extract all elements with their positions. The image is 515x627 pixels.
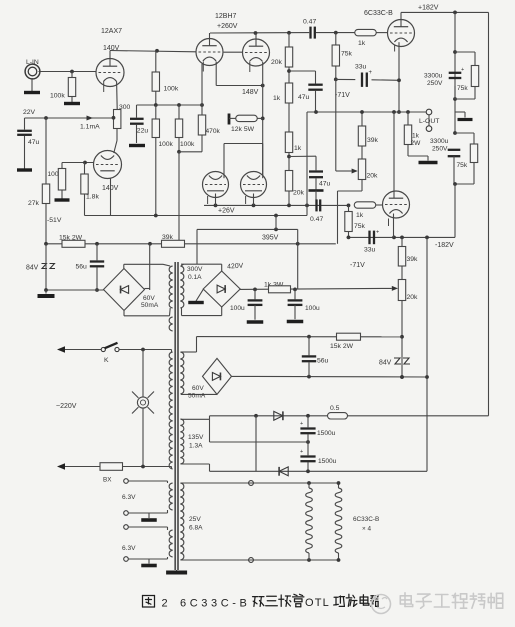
wire top rail y=50 to 12BH7 grid [110, 51, 196, 52]
resistor 1k 2W [407, 112, 409, 125]
bridge rectifier B1 60V [104, 269, 145, 311]
svg-text:6.3V: 6.3V [122, 494, 136, 501]
wire lower plates link y=143.5 [224, 143, 263, 145]
svg-text:3300u: 3300u [424, 73, 443, 80]
right rail down [488, 12, 490, 415]
winding 60V-1 [169, 266, 172, 308]
svg-text:20k: 20k [407, 294, 419, 301]
svg-text:300V: 300V [187, 266, 203, 273]
triode 6C33C-B upper [388, 20, 415, 47]
wire cathode line +26V [204, 204, 349, 206]
node -71V upper [335, 66, 337, 79]
jack L-OUT [426, 109, 432, 115]
svg-text:47u: 47u [319, 181, 331, 188]
left rail 22V to -51V [45, 118, 47, 244]
resistor 20k V2 plate load [288, 33, 290, 47]
capacitor 1500u lower [307, 442, 309, 455]
wire lower cathode stem [393, 214, 395, 238]
wire wiper arm [336, 170, 352, 172]
wire output to lower plate [393, 112, 395, 198]
transformer core [174, 262, 176, 570]
bridge rectifier B2 420V [221, 264, 223, 271]
wire left rail to ground node y=290 [45, 244, 47, 290]
triode V1a (12AX7 a) [96, 59, 124, 87]
svg-text:22u: 22u [137, 128, 149, 135]
wire input to V1a grid [39, 71, 97, 73]
svg-text:0.1A: 0.1A [188, 274, 202, 281]
svg-text:100k: 100k [180, 141, 195, 148]
wire switch to primary [119, 349, 171, 351]
arrow wiper into 20k lower [392, 286, 398, 291]
svg-text:12AX7: 12AX7 [101, 28, 122, 35]
heater load zigzag 1 [308, 483, 310, 488]
wire 395V line down to 1k3W line [297, 229, 299, 289]
wire bias line y=244 [46, 243, 336, 245]
svg-text:22V: 22V [23, 109, 36, 116]
svg-text:15k 2W: 15k 2W [330, 343, 354, 350]
svg-text:-51V: -51V [47, 217, 62, 224]
lamp G [142, 350, 144, 397]
triode 6C33C-B lower [383, 191, 410, 218]
svg-text:~220V: ~220V [56, 403, 77, 410]
ground under 100u left [247, 320, 264, 323]
svg-text:100k: 100k [50, 93, 65, 100]
svg-text:-71V: -71V [350, 262, 365, 269]
wire V2a lower plate stem [223, 144, 225, 179]
wire output line y=112 [307, 111, 426, 113]
wire B1 right corner up to bias line [149, 244, 151, 290]
winding 25V [180, 483, 183, 560]
resistor 100k divider b [178, 105, 180, 119]
winding 6.3V b [169, 530, 172, 557]
svg-text:75k: 75k [354, 223, 366, 230]
wire V2b plate stem [255, 33, 257, 39]
node 22V/left rail [44, 116, 48, 120]
wire cap to 6C33C grid node [316, 32, 355, 34]
wire 6.3V a top [128, 480, 167, 482]
resistor 100k plate V1a [155, 51, 157, 72]
watermark text dianzi gongcheng zhuanji [400, 593, 412, 607]
wire V2a plate stem [209, 33, 211, 39]
svg-text:K: K [104, 357, 109, 364]
capacitor 56u lower [308, 337, 310, 356]
svg-text:6.8A: 6.8A [189, 525, 203, 532]
svg-text:12BH7: 12BH7 [215, 13, 237, 20]
wire V2a lower cathode stem [215, 194, 217, 206]
resistor 12k 5W [229, 117, 236, 119]
wire plate stem upper tube [400, 12, 402, 19]
svg-text:60V: 60V [143, 295, 155, 302]
stub V2b [249, 62, 251, 72]
ground 6.3V a [148, 513, 150, 518]
svg-text:100u: 100u [305, 305, 320, 312]
ground under 100u right [287, 320, 304, 323]
wire to 47u upper [289, 70, 316, 72]
svg-text:47u: 47u [298, 94, 310, 101]
capacitor 33u lower [368, 231, 370, 245]
svg-text:1500u: 1500u [317, 430, 336, 437]
svg-text:3300u: 3300u [430, 138, 449, 145]
wire 25V bottom [181, 559, 339, 561]
resistor 1k grid lower [347, 204, 351, 208]
svg-text:6C33C-B: 6C33C-B [180, 598, 250, 610]
resistor 39k bias lower [401, 237, 403, 246]
wire V1b plate stem [110, 179, 112, 216]
winding mains primary [169, 352, 172, 469]
jack 6.3V b bottom [124, 557, 129, 562]
fuse BX [100, 463, 123, 471]
switch K [101, 347, 105, 351]
resistor 1k V2 b [285, 132, 292, 153]
resistor 100k divider a [155, 105, 157, 119]
wire 20k bottom jog [361, 180, 363, 192]
resistor 75k from grid node [335, 33, 337, 45]
wire 300V bottom to bridge B2 [181, 308, 183, 316]
wire 300 bottom to V1b cathode [116, 129, 118, 141]
wire V1a plate to top rail [109, 51, 111, 59]
svg-text:100u: 100u [230, 305, 245, 312]
wire B+ line y=416 [210, 415, 328, 417]
svg-text:25V: 25V [189, 516, 201, 523]
svg-text:33u: 33u [355, 64, 367, 71]
svg-text:OTL: OTL [305, 597, 330, 609]
svg-text:0.47: 0.47 [310, 216, 323, 223]
wire 148V cathode link [216, 85, 263, 87]
triode V2b lower (12BH7) [241, 172, 267, 198]
wire 395V feed line y=229.4 [197, 228, 298, 230]
svg-text:6.3V: 6.3V [122, 545, 136, 552]
svg-text:2W: 2W [411, 140, 422, 147]
wire B1 bottom to transformer [123, 311, 125, 316]
wire 33u line to 6C33C cathode [336, 78, 356, 80]
arrow wiper into 20k [352, 169, 358, 174]
ground under 22u [129, 144, 145, 147]
wire node y=290 to bridge B1 [46, 289, 104, 291]
wire to switch [65, 349, 101, 351]
svg-text:× 4: × 4 [362, 526, 372, 533]
watermark logo circle [372, 595, 391, 614]
resistor 75k grid leak lower [348, 205, 350, 211]
caption: tu 2 [143, 596, 155, 608]
svg-text:+: + [369, 70, 373, 76]
capacitor 47u input [24, 118, 26, 130]
svg-text:75k: 75k [341, 51, 353, 58]
capacitor 3300u lower [453, 131, 457, 135]
ground under 1k 2W [407, 145, 409, 157]
wire fuse to primary bottom [123, 466, 172, 468]
svg-text:1k: 1k [358, 40, 366, 47]
wire 20k bottom to lines below [401, 301, 403, 378]
svg-text:50mA: 50mA [188, 393, 206, 400]
svg-text:250V: 250V [432, 146, 448, 153]
svg-text:20k: 20k [293, 190, 305, 197]
ground stub right of L-OUT [455, 111, 465, 113]
winding 300V [180, 266, 183, 308]
ground under 100 [55, 198, 70, 201]
wire V1b plate line y=215.5 [85, 215, 308, 217]
svg-text:0.5: 0.5 [330, 405, 340, 412]
wire -71V rail down to wiper [335, 79, 337, 171]
resistor 1k grid upper [355, 29, 377, 35]
ground under 47u [17, 168, 32, 171]
capacitor 22u cathode bypass [136, 105, 138, 118]
svg-text:1k: 1k [412, 133, 420, 140]
winding stub below 60V-1 [169, 317, 172, 331]
ground at core bottom [176, 570, 178, 571]
wire B2 right to 1k3W line [239, 288, 242, 290]
svg-text:+: + [300, 421, 303, 427]
node input/100k junction [70, 70, 74, 74]
capacitor 47u lower [315, 156, 317, 170]
svg-text:0.47: 0.47 [303, 19, 316, 26]
wire 1k to 1k [288, 103, 290, 132]
jack 6.3V b top [124, 525, 129, 530]
ground at -51V rail bottom [45, 290, 47, 294]
resistor 470k [201, 105, 203, 115]
resistor 1.8k cathode [84, 163, 86, 175]
wire cathode upper tube to out [398, 42, 400, 112]
wire 395V to plate line [275, 216, 277, 230]
svg-text:39k: 39k [407, 256, 419, 263]
resistor 100 grid stopper [61, 163, 63, 169]
svg-text:BX: BX [103, 477, 112, 484]
svg-text:12k 5W: 12k 5W [231, 126, 255, 133]
capacitor 1500u upper [307, 416, 309, 428]
svg-text:27k: 27k [28, 200, 40, 207]
capacitor 33u upper [361, 73, 363, 87]
svg-text:+: + [300, 449, 303, 455]
wire 15k2W-2 line y=336.6 [197, 336, 403, 338]
svg-text:100k: 100k [164, 86, 179, 93]
ground at B2 left [196, 289, 203, 301]
svg-text:-71V: -71V [335, 92, 350, 99]
wire B3 right to 84V line [232, 375, 428, 378]
wire right rail to -182V [454, 184, 456, 237]
svg-text:33u: 33u [364, 247, 376, 254]
stub V2b lower [245, 196, 247, 204]
jack 6.3V a bottom [124, 511, 129, 516]
svg-text:100k: 100k [159, 141, 174, 148]
resistor 75k bleeder upper [471, 66, 478, 87]
svg-text:84V: 84V [26, 265, 39, 272]
svg-text:470k: 470k [206, 128, 221, 135]
bridge rectifier B3 60V [203, 358, 232, 394]
capacitor 56u left [96, 244, 98, 260]
wire output drop to +26V line [306, 112, 308, 216]
wire 60V-2 bottom to B3 [181, 393, 217, 395]
stub V2a [202, 62, 204, 72]
svg-text:39k: 39k [367, 137, 379, 144]
stub V2a lower [207, 196, 209, 204]
wire 100k-a bottom to V1b plate line [155, 138, 157, 216]
capacitor 47u upper [315, 71, 317, 84]
wire V1b grid line [62, 162, 94, 164]
svg-text:420V: 420V [227, 263, 244, 271]
wire 60V-1 top to bridge B1 top [163, 264, 170, 266]
svg-text:+: + [461, 67, 464, 73]
svg-text:148V: 148V [242, 89, 259, 96]
wire V2b lower cathode stem [253, 194, 255, 206]
wire 135V bottom lead [181, 463, 210, 465]
svg-text:+26V: +26V [218, 208, 235, 215]
svg-text:6C33C-B: 6C33C-B [364, 10, 393, 17]
diode D1 [274, 411, 283, 420]
wire 135V top lead [181, 418, 210, 420]
svg-text:6C33C-B: 6C33C-B [353, 516, 379, 523]
wire 1k 3W bias feed line [240, 288, 392, 289]
svg-text:1k: 1k [356, 212, 364, 219]
svg-text:+260V: +260V [217, 23, 238, 30]
svg-text:395V: 395V [262, 235, 279, 242]
svg-text:75k: 75k [457, 85, 468, 92]
resistor 27k [42, 184, 49, 204]
arrow 1.1mA current [87, 116, 94, 121]
svg-text:1.1mA: 1.1mA [80, 124, 100, 131]
svg-text:1k: 1k [294, 145, 302, 152]
wire +182V rail [401, 11, 489, 13]
caption: gong fang dian lu [334, 596, 345, 606]
triode V2a upper (12BH7) [196, 39, 223, 66]
capacitor 100u right [294, 289, 296, 299]
wire 25V top [181, 482, 339, 484]
svg-text:20k: 20k [271, 59, 283, 66]
diode D2 [279, 467, 288, 476]
svg-text:2: 2 [162, 598, 168, 610]
wire to fuse [65, 466, 100, 468]
svg-text:75k: 75k [457, 162, 468, 169]
wire 395V feed to winding [196, 229, 198, 264]
resistor 39k feedback [361, 112, 363, 126]
ground 6.3V b [148, 559, 150, 564]
electrode bar 12k5W [228, 114, 231, 125]
svg-text:100: 100 [48, 171, 59, 178]
wire 6.3V b bottom [128, 558, 167, 560]
heater load zigzag 2 [338, 483, 340, 488]
resistor 1k V2 a [285, 83, 292, 103]
jack 6.3V a top [124, 479, 129, 484]
capacitor 3300u upper [454, 12, 456, 133]
wire cathode node down to lower plates [262, 62, 264, 175]
svg-text:1.8k: 1.8k [86, 194, 99, 201]
svg-text:1k: 1k [273, 95, 281, 102]
wire junction to 470k bottom [179, 151, 202, 153]
resistor 20k V2 c [285, 171, 292, 192]
triode V1b (12AX7 b) [94, 151, 122, 179]
resistor 20k feedback [361, 146, 363, 159]
resistor 75k bleeder lower [470, 144, 477, 163]
capacitor 100u left [254, 289, 256, 299]
svg-text:20k: 20k [367, 173, 379, 180]
wire 6.3V a bottom [128, 512, 167, 514]
node plate rail / 100k [155, 49, 159, 53]
ground under J1 [24, 91, 40, 94]
wire grid tie V2a V2b [224, 51, 243, 53]
arrow mains L [57, 346, 65, 352]
triode V2a lower (12BH7) [203, 172, 229, 198]
wire left cap return [255, 416, 257, 472]
resistor 20k bias lower [401, 266, 403, 280]
wire V2a grid drop [201, 64, 203, 105]
stub 6C33C upper [394, 45, 396, 52]
capacitor 0.47 coupling lower [315, 199, 317, 211]
winding 135V [180, 419, 183, 464]
wire -182V drop to bottom rail [426, 237, 428, 471]
jack return [428, 115, 430, 126]
wire 100k-b node down to 39k line [178, 152, 180, 241]
caption: shuang san ji guan [253, 597, 264, 607]
input connector J1 [25, 64, 40, 79]
wire 22V feedback line [25, 117, 114, 119]
wire junction to 47u lower [289, 155, 316, 157]
svg-text:56u: 56u [317, 358, 329, 365]
node feedback junction [288, 153, 290, 171]
wire J1 to ground [31, 78, 33, 92]
wire 6.3V b top [128, 526, 167, 528]
ground under 100k [64, 102, 80, 105]
bus node line y=105 [137, 104, 203, 106]
wire mid tap line [210, 441, 309, 443]
svg-text:50mA: 50mA [141, 302, 159, 309]
svg-text:56u: 56u [76, 264, 88, 271]
winding 60V-2 [180, 352, 183, 394]
svg-text:250V: 250V [427, 80, 443, 87]
svg-text:47u: 47u [28, 139, 40, 146]
svg-text:135V: 135V [188, 434, 204, 441]
resistor 300 V1a cathode [116, 82, 119, 110]
svg-text:84V: 84V [379, 360, 392, 367]
winding 6.3V a [169, 483, 172, 510]
wire 100k-b bottom junction [178, 138, 180, 152]
wire -182V line [347, 236, 456, 238]
svg-text:1.3A: 1.3A [189, 443, 203, 450]
stub 6C33C lower [388, 219, 390, 227]
wire V2a cathode down [215, 62, 217, 86]
wire +260V rail [210, 32, 309, 34]
node cathode/22V line [112, 116, 116, 120]
wire bottom rail y=471 [210, 470, 428, 472]
triode V2b upper (12BH7) [243, 39, 270, 66]
svg-text:60V: 60V [192, 385, 204, 392]
resistor 100k grid R in [71, 72, 73, 78]
svg-text:1500u: 1500u [318, 458, 337, 465]
svg-text:+: + [376, 230, 379, 236]
svg-text:-182V: -182V [435, 242, 454, 249]
svg-text:+182V: +182V [418, 5, 439, 12]
arrow mains N [57, 463, 65, 469]
wire 60V-2 top to 15k line [181, 351, 197, 353]
node 20k bottom [288, 67, 290, 83]
